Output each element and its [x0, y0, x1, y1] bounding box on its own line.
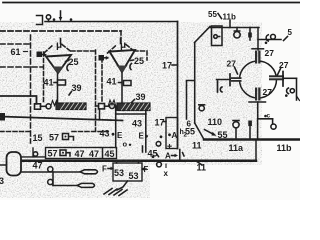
wire into tank	[0, 164, 7, 166]
node dot on bus	[152, 155, 155, 158]
switch square row2	[60, 150, 66, 156]
wire vertical x146	[145, 111, 147, 153]
bell contact 2	[233, 120, 239, 122]
wire dashed D2	[0, 43, 31, 45]
relay box B	[166, 118, 178, 149]
coil zigzag 2	[109, 100, 116, 105]
wire Q1 output	[57, 74, 59, 103]
wire dashed bottom row	[0, 131, 108, 133]
terminal square bottom 1	[35, 104, 41, 109]
transistor Q1	[46, 55, 71, 73]
wire dashed cell1 right	[95, 50, 97, 131]
label 17c leader	[164, 121, 167, 123]
wire vertical at 179.8	[179, 150, 181, 161]
hanging circle	[272, 119, 274, 124]
bell contact 1	[199, 104, 205, 106]
svg-text:11b: 11b	[223, 13, 236, 22]
wire feed line cell1	[0, 96, 37, 104]
contact circle on wire	[33, 152, 37, 156]
arrow down onto L2	[60, 11, 62, 18]
svg-text:11b: 11b	[277, 143, 293, 153]
fuse pill 1	[80, 170, 98, 174]
switch square row1	[63, 134, 69, 140]
wire right corner down	[296, 78, 298, 100]
right bus line	[204, 138, 300, 141]
label 55t arrow	[218, 14, 222, 19]
label 61 dash	[23, 51, 28, 53]
node dots mid	[112, 133, 115, 136]
tick for 45	[142, 146, 144, 152]
tap line with contact	[258, 39, 281, 41]
label 41a leader	[54, 82, 57, 84]
wire vertical fuse	[52, 172, 54, 186]
wire stubs below bars	[99, 109, 101, 120]
heater bar 1	[56, 103, 86, 110]
label F left arrow	[108, 168, 111, 170]
switch box 55	[212, 26, 223, 46]
hanging contact 2	[249, 28, 251, 41]
node mu1 stem	[60, 39, 62, 44]
wire L2 supply line	[45, 21, 178, 23]
wire stub to square 2	[96, 105, 99, 107]
transistor Q2 roof dashed	[108, 45, 148, 61]
svg-text:5: 5	[288, 28, 293, 37]
contact circle f2	[48, 179, 53, 184]
wire dashed D3	[0, 66, 43, 68]
wire vertical x195	[194, 43, 196, 124]
main bottom bus	[21, 159, 256, 162]
scan noise overlay	[0, 0, 1, 1]
svg-text:x: x	[164, 169, 169, 178]
brush right 27	[269, 75, 284, 80]
node dot in box	[168, 133, 171, 136]
label 17a leader	[172, 64, 178, 66]
wire dashed D1 corner down	[120, 31, 122, 44]
wire diagonal to 55 box	[195, 27, 211, 43]
hanging contact 1	[234, 28, 239, 32]
contact circle 2	[110, 104, 115, 109]
contact c-circle right	[287, 88, 289, 94]
contact circle f1	[48, 167, 53, 172]
terminal blob left edge	[0, 113, 5, 121]
label 25 leader	[66, 61, 69, 62]
transistor Q2 apex hatch	[117, 66, 128, 73]
motor circle	[240, 61, 277, 98]
label 39a leader	[69, 92, 72, 96]
resistor 41a	[58, 80, 66, 85]
wire dashed vertical V1	[30, 35, 32, 143]
coil zigzag 1	[51, 101, 58, 106]
wire vertical x115.7	[115, 106, 117, 148]
node dot	[53, 18, 56, 21]
wire node line	[210, 27, 259, 29]
brush top 27	[255, 51, 261, 64]
crossbar top	[252, 48, 264, 50]
label 27l leader	[235, 67, 238, 74]
wire corner down to motor	[257, 28, 259, 51]
brush bottom 27	[255, 88, 261, 101]
wire stubs to box 53	[117, 161, 139, 163]
label 39b leader	[132, 100, 135, 103]
wire dashed D1	[0, 30, 121, 32]
wire below bottom brush	[258, 102, 273, 140]
wire diagonal to right bus	[195, 123, 204, 140]
label 41b leader	[119, 82, 122, 84]
node dot	[70, 18, 73, 21]
box row2	[46, 148, 117, 159]
label 25b leader	[131, 59, 134, 62]
contact circle under bus	[157, 162, 162, 167]
plus mark in box	[168, 145, 171, 149]
svg-text:27: 27	[263, 87, 273, 97]
terminal square bottom 2	[99, 104, 105, 109]
fuse pill 2	[77, 183, 95, 187]
svg-text:27: 27	[279, 60, 289, 70]
wire fuse row 1	[21, 171, 80, 173]
terminal square B1	[37, 52, 43, 58]
wire tank to box row2	[21, 156, 46, 158]
transistor Q2	[110, 50, 136, 72]
tank 3	[7, 152, 22, 176]
label 11bt stem	[229, 21, 231, 28]
curve mark 1	[67, 65, 69, 71]
node mu2 stem	[120, 39, 122, 44]
wire W1	[0, 117, 123, 121]
wire vertical jog	[32, 148, 34, 157]
wire top border line	[3, 2, 300, 4]
contact circle on L2	[46, 15, 50, 19]
label F right arrow	[144, 168, 147, 170]
brush left 27	[217, 79, 232, 81]
stem contact a	[248, 121, 252, 127]
transistor Q1 roof dashed	[44, 45, 94, 54]
wire vertical from L2 corner	[177, 22, 179, 149]
wire fuse row 2	[53, 185, 77, 187]
wire Q2 output	[121, 73, 123, 103]
relay box 53	[113, 163, 142, 181]
node dot c	[264, 115, 267, 118]
bus step connector	[255, 140, 257, 161]
arrow A to vertical	[172, 155, 176, 157]
wire to contact	[41, 105, 47, 107]
wire branch L to 186	[187, 81, 195, 120]
svg-text:27: 27	[265, 48, 275, 58]
wire to contact 2	[105, 105, 110, 107]
label 27r leader	[278, 69, 281, 75]
label 11 leader	[197, 162, 202, 166]
separator in row2 box	[102, 149, 104, 159]
heater bar 2	[117, 103, 150, 111]
wire dashed cell1 left	[43, 52, 45, 102]
label 55r leader arrow	[205, 130, 214, 135]
terminal square B2	[99, 55, 105, 61]
left contact bar c	[217, 81, 219, 92]
ground hatching	[104, 189, 127, 196]
circle above 45	[156, 142, 161, 147]
label 5 leader	[284, 37, 288, 41]
crossbar bottom	[249, 101, 266, 103]
wire dashed cell2 left	[101, 58, 103, 101]
bracket terminal	[37, 16, 43, 25]
transistor Q1 apex hatch	[53, 67, 64, 74]
wire W1b	[116, 113, 146, 115]
svg-text:55: 55	[208, 10, 217, 19]
svg-text:c: c	[267, 113, 271, 120]
ground lead	[117, 181, 128, 190]
curve mark 2	[130, 64, 132, 70]
resistor 41b	[124, 81, 132, 86]
contact circle 1	[46, 104, 51, 109]
